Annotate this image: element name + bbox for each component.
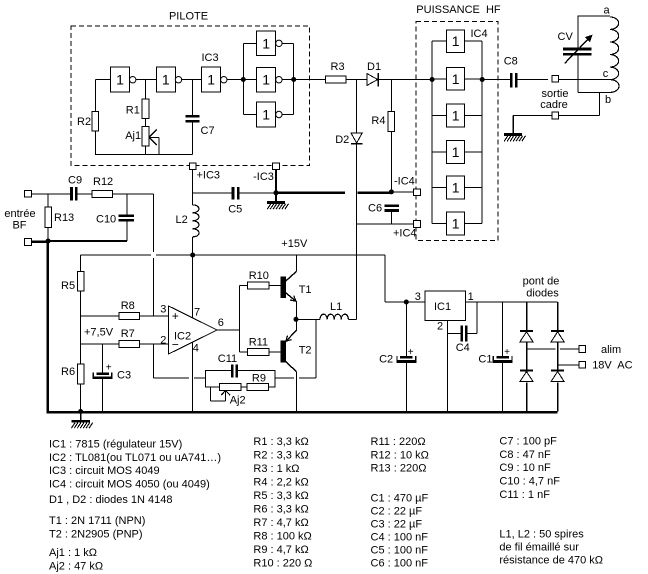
wire +IC3 down to L2: [192, 170, 194, 205]
svg-text:R7 : 4,7 kΩ: R7 : 4,7 kΩ: [253, 517, 308, 529]
svg-text:CV: CV: [558, 31, 574, 43]
node IC4 input: [430, 77, 435, 82]
capacitor C7: [185, 115, 199, 118]
wire C11 branch: [206, 369, 231, 371]
svg-text:C11: C11: [218, 353, 237, 365]
wire lower sortie to ground: [513, 115, 551, 117]
svg-text:C3 : 22 µF: C3 : 22 µF: [371, 519, 423, 531]
connector sortie lower: [552, 112, 559, 119]
wire L2 bottom to +15V bus: [192, 237, 194, 255]
variable capacitor CV: [563, 48, 592, 51]
inverter IC3a: [111, 67, 130, 92]
svg-text:R4 : 2,2 kΩ: R4 : 2,2 kΩ: [253, 477, 308, 489]
resistor R5: [77, 271, 84, 291]
svg-text:7: 7: [194, 306, 200, 318]
regulator IC1: [425, 291, 466, 321]
svg-text:R12 : 10 kΩ: R12 : 10 kΩ: [371, 449, 429, 461]
svg-text:2: 2: [437, 321, 443, 333]
node R4 ground: [389, 189, 394, 194]
connector sortie upper: [552, 75, 559, 82]
wire to R10: [239, 285, 247, 287]
resistor R2: [92, 111, 99, 131]
connector alim lower: [579, 361, 586, 368]
svg-text:+IC3: +IC3: [197, 170, 221, 182]
wire ground to -IC4: [391, 191, 413, 193]
wire input inverter chain: [95, 79, 110, 81]
PILOTE dashed box: [71, 26, 309, 166]
svg-text:R12: R12: [93, 176, 113, 188]
svg-text:R9: R9: [252, 373, 266, 385]
wire C5 to -IC3 ground: [240, 192, 277, 194]
svg-text:IC2 : TL081(ou TL071 ou uA741…: IC2 : TL081(ou TL071 ou uA741…): [49, 452, 221, 464]
wire -IC3 down: [275, 170, 277, 193]
svg-text:C6: C6: [368, 203, 382, 215]
wire D2 branch: [356, 80, 358, 133]
svg-text:IC1: IC1: [434, 301, 451, 313]
svg-text:1: 1: [262, 72, 270, 88]
op-amp IC2: [169, 306, 217, 354]
svg-text:Aj1: Aj1: [125, 130, 141, 142]
svg-text:c: c: [603, 68, 609, 80]
wire Aj2-R9: [241, 386, 247, 388]
svg-text:C11 : 1 nF: C11 : 1 nF: [499, 489, 550, 501]
node IC4 output: [480, 77, 485, 82]
svg-text:C5: C5: [228, 204, 242, 216]
svg-text:T1 : 2N 1711 (NPN): T1 : 2N 1711 (NPN): [49, 515, 145, 527]
svg-text:R1 : 3,3 kΩ: R1 : 3,3 kΩ: [253, 436, 308, 448]
svg-text:C1 : 470 µF: C1 : 470 µF: [371, 493, 429, 505]
wire R7 line: [81, 343, 119, 345]
svg-text:C2 : 22 µF: C2 : 22 µF: [371, 506, 423, 518]
wire AC lower tap: [558, 364, 579, 366]
svg-text:R8: R8: [121, 300, 135, 312]
svg-text:R2: R2: [77, 116, 91, 128]
wire C3 bottom: [102, 379, 104, 411]
node R6 ground: [78, 409, 83, 414]
wire L1 right up to D2 column: [348, 318, 356, 320]
capacitor C9: [70, 187, 73, 201]
svg-text:R10: R10: [249, 270, 269, 282]
ground sortie: [512, 116, 514, 135]
svg-text:alim: alim: [601, 344, 621, 356]
wire ground line to right: [276, 192, 345, 194]
wire IC4 out to C8: [482, 79, 510, 81]
PUISSANCE HF dashed box: [416, 22, 498, 241]
wire bridge left mid: [526, 343, 528, 371]
svg-text:R6: R6: [61, 366, 75, 378]
svg-text:1: 1: [452, 216, 460, 232]
wire bridge right column top: [557, 302, 559, 331]
svg-text:C6 : 100 nF: C6 : 100 nF: [371, 558, 429, 570]
frame coil c-b: [610, 80, 619, 93]
node L2 on bus: [190, 253, 195, 258]
node -IC3 ground: [274, 190, 279, 195]
wire inv2-inv3: [181, 79, 202, 81]
svg-text:R3 : 1 kΩ: R3 : 1 kΩ: [253, 463, 299, 475]
svg-text:+: +: [408, 347, 414, 358]
svg-text:1: 1: [452, 33, 460, 49]
svg-text:+: +: [106, 363, 112, 374]
svg-text:R10 : 220 Ω: R10 : 220 Ω: [253, 558, 312, 570]
wire +IC4 line: [357, 223, 414, 225]
svg-text:+: +: [172, 309, 179, 323]
wire C4 right up: [467, 333, 476, 335]
svg-text:+15V: +15V: [281, 238, 308, 250]
svg-text:R6 : 3,3 kΩ: R6 : 3,3 kΩ: [253, 504, 308, 516]
node output: [294, 317, 299, 322]
wire CV top rail: [577, 16, 579, 48]
svg-text:L1, L2 : 50 spires: L1, L2 : 50 spires: [499, 529, 584, 541]
svg-text:IC4 : circuit MOS 4050 (ou 404: IC4 : circuit MOS 4050 (ou 4049): [49, 478, 210, 490]
svg-text:C8 : 47 nF: C8 : 47 nF: [499, 449, 551, 461]
svg-text:cadre: cadre: [540, 99, 568, 111]
wire C7 column: [192, 80, 194, 116]
buffer IC4d: [447, 140, 465, 163]
svg-text:b: b: [605, 94, 611, 106]
wire connector to coil tap c: [559, 79, 610, 81]
ground bus symbol: [80, 414, 82, 422]
wire buffer 1 stubs: [432, 40, 447, 42]
svg-text:T2: T2: [299, 345, 312, 357]
wire lower sortie right: [559, 115, 599, 117]
wire R1 top: [145, 80, 147, 99]
wire R13 bottom: [47, 228, 49, 241]
bridge diode upper-left: [520, 330, 533, 332]
svg-text:1: 1: [452, 71, 460, 87]
resistor R11: [247, 348, 269, 355]
svg-text:Aj2 : 47 kΩ: Aj2 : 47 kΩ: [49, 560, 103, 572]
svg-text:C9: C9: [68, 174, 82, 186]
capacitor C6: [384, 205, 399, 208]
connector entree BF lower: [25, 239, 32, 246]
bridge diode upper-right: [551, 330, 564, 332]
svg-text:1: 1: [468, 291, 474, 303]
connector -IC3: [273, 163, 280, 170]
capacitor C5: [232, 187, 235, 200]
svg-text:IC2: IC2: [174, 331, 191, 343]
svg-text:entrée: entrée: [4, 208, 35, 220]
buffer IC4e: [447, 176, 465, 199]
wire IC4 input bus: [431, 41, 433, 223]
ground -IC3: [275, 193, 277, 203]
svg-text:18V AC: 18V AC: [592, 359, 632, 371]
svg-text:+IC4: +IC4: [393, 227, 417, 239]
wire bridge right col bottom: [557, 383, 559, 412]
svg-text:1: 1: [452, 108, 460, 124]
inductor L2: [193, 205, 199, 237]
wire to R3: [294, 79, 326, 81]
feedback block right bar: [274, 370, 276, 388]
wire buffer 5 stubs: [432, 186, 447, 188]
svg-text:T1: T1: [299, 284, 312, 296]
resistor R4: [388, 111, 395, 131]
wire feedback tap: [315, 319, 317, 378]
svg-text:C10: C10: [96, 213, 116, 225]
svg-text:1: 1: [452, 144, 460, 160]
svg-text:R1: R1: [126, 105, 140, 117]
resistor R7: [119, 341, 140, 348]
svg-text:C4: C4: [456, 342, 470, 354]
svg-text:R5 : 3,3 kΩ: R5 : 3,3 kΩ: [253, 490, 308, 502]
wire buffer 3 stubs: [432, 115, 447, 117]
capacitor C10: [119, 214, 135, 217]
wire L2 node to C5: [193, 192, 232, 194]
wire node to L1: [296, 318, 320, 320]
wire D1 output: [378, 79, 432, 81]
svg-text:6: 6: [218, 317, 224, 329]
buffer IC4c: [447, 104, 465, 127]
capacitor C11: [231, 364, 234, 377]
trimmer Aj2: [219, 383, 240, 390]
transistor T2: [280, 341, 286, 363]
svg-text:C8: C8: [504, 56, 518, 68]
svg-text:C2: C2: [379, 353, 393, 365]
svg-text:Aj1 : 1 kΩ: Aj1 : 1 kΩ: [49, 547, 97, 559]
feedback block left bar: [205, 370, 207, 388]
connector alim upper: [579, 346, 586, 353]
svg-text:C5 : 100 nF: C5 : 100 nF: [371, 545, 429, 557]
svg-text:C10 : 4,7 nF: C10 : 4,7 nF: [499, 475, 560, 487]
svg-text:1: 1: [162, 72, 170, 88]
resistor R3: [326, 76, 346, 83]
wire pin4 to ground bus: [192, 342, 194, 412]
resistor R10: [247, 282, 269, 289]
svg-text:D2: D2: [335, 134, 349, 146]
wire bridge right mid: [557, 343, 559, 371]
svg-text:IC3: IC3: [202, 52, 219, 64]
svg-text:R3: R3: [331, 61, 345, 73]
wire R4 bottom to ground line: [390, 132, 392, 193]
svg-text:1: 1: [262, 35, 270, 51]
inverter IC3e: [257, 67, 276, 92]
resistor R9: [247, 383, 268, 390]
svg-text:IC4: IC4: [471, 28, 488, 40]
wire C1 branch: [502, 302, 504, 356]
wire R8 line: [81, 315, 119, 317]
svg-text:résistance de 470 kΩ: résistance de 470 kΩ: [499, 555, 603, 567]
svg-text:R13 : 220Ω: R13 : 220Ω: [371, 463, 427, 475]
wire inv1-inv2: [136, 79, 156, 81]
svg-text:R13: R13: [54, 212, 74, 224]
capacitor C2: [400, 356, 413, 359]
wire C8 to sortie connector: [517, 79, 548, 81]
inverter IC3b: [156, 67, 175, 92]
inverter IC3d: [257, 31, 276, 56]
svg-text:2: 2: [160, 335, 166, 347]
svg-text:BF: BF: [12, 220, 26, 232]
svg-text:R11: R11: [249, 337, 268, 349]
wire bridge left col bottom: [526, 383, 528, 412]
capacitor C8: [510, 73, 513, 88]
svg-text:R8 : 100 kΩ: R8 : 100 kΩ: [253, 531, 311, 543]
wire R1-Aj1: [145, 119, 147, 127]
node BF ground: [46, 239, 51, 244]
buffer IC4a: [447, 30, 465, 53]
svg-text:D1 , D2 : diodes 1N 4148: D1 , D2 : diodes 1N 4148: [49, 494, 173, 506]
transistor T1: [280, 276, 286, 298]
svg-text:PILOTE: PILOTE: [169, 11, 208, 23]
node C2 junction: [404, 300, 409, 305]
svg-text:L1: L1: [330, 301, 342, 313]
wire parallel input bus: [242, 43, 244, 114]
resistor R13: [45, 207, 52, 228]
svg-text:D1: D1: [367, 61, 381, 73]
buffer IC4b: [447, 67, 465, 90]
wire CV bottom rail: [577, 56, 579, 93]
capacitor C4: [461, 326, 464, 342]
wire coil b down: [598, 92, 600, 115]
svg-text:3: 3: [160, 304, 166, 316]
wire pin7 to bus: [192, 255, 194, 318]
svg-text:R11 : 220Ω: R11 : 220Ω: [371, 436, 426, 448]
svg-text:R5: R5: [61, 280, 75, 292]
wire BF ground down: [47, 241, 49, 412]
svg-text:diodes: diodes: [526, 288, 559, 300]
svg-text:PUISSANCE HF: PUISSANCE HF: [416, 4, 501, 16]
svg-text:L2: L2: [176, 214, 188, 226]
svg-text:a: a: [604, 5, 611, 17]
svg-text:T2 : 2N2905 (PNP): T2 : 2N2905 (PNP): [49, 528, 143, 540]
wire pin2 feedback down: [152, 344, 154, 378]
svg-text:C1: C1: [478, 353, 492, 365]
svg-text:IC3 : circuit MOS 4049: IC3 : circuit MOS 4049: [49, 465, 160, 477]
node chain output: [241, 77, 246, 82]
svg-text:R7: R7: [121, 328, 135, 340]
svg-text:R4: R4: [371, 115, 385, 127]
wire bridge left column top: [526, 302, 528, 331]
wire C10 branch: [126, 194, 128, 215]
capacitor C3: [96, 373, 109, 376]
svg-text:Aj2: Aj2: [230, 395, 246, 407]
wire C9 to R12: [78, 193, 93, 195]
wire C2 bottom: [405, 363, 407, 412]
wire C4 left: [448, 333, 461, 335]
svg-text:-IC4: -IC4: [394, 175, 415, 187]
wire AC upper tap: [527, 348, 556, 350]
connector +IC4: [414, 221, 421, 228]
svg-text:C3: C3: [117, 370, 131, 382]
svg-text:1: 1: [116, 72, 124, 88]
svg-text:pont de: pont de: [523, 276, 560, 288]
svg-text:C7 : 100 pF: C7 : 100 pF: [499, 436, 557, 448]
wire BF lower to node: [32, 240, 48, 242]
svg-text:1: 1: [262, 107, 270, 123]
wire node to T2 emitter: [295, 319, 297, 331]
bridge diode lower-left: [520, 370, 533, 372]
resistor R12: [92, 190, 112, 197]
capacitor C1: [497, 356, 510, 359]
svg-text:R2 : 3,3 kΩ: R2 : 3,3 kΩ: [253, 450, 308, 462]
bridge diode lower-right: [551, 370, 564, 372]
svg-text:C7: C7: [201, 125, 215, 137]
wire IC1 pin2 down: [447, 321, 449, 412]
svg-text:C9 : 10 nF: C9 : 10 nF: [499, 462, 551, 474]
svg-text:3: 3: [415, 291, 421, 303]
connector -IC4: [414, 189, 421, 196]
resistor R1: [142, 99, 149, 119]
wire R6 bottom: [80, 384, 82, 412]
inverter IC3f: [257, 102, 276, 127]
buffer IC4f: [447, 212, 465, 235]
connector entree BF upper: [25, 190, 32, 197]
wire R5 top: [80, 255, 82, 271]
resistor R6: [77, 364, 84, 384]
wire Aj1 bottom: [145, 146, 147, 154]
svg-text:de fil émaillé sur: de fil émaillé sur: [499, 542, 579, 554]
wire divider node: [80, 291, 82, 364]
wire R2 bottom: [94, 131, 96, 155]
svg-text:IC1 : 7815 (régulateur 15V): IC1 : 7815 (régulateur 15V): [49, 439, 182, 451]
wire R9 right: [269, 386, 275, 388]
svg-text:1: 1: [207, 72, 215, 88]
wire C10 bottom: [126, 221, 128, 241]
wire BF upper to C9: [32, 193, 71, 195]
node parallel output: [291, 77, 296, 82]
wire IC4 output bus: [481, 41, 483, 223]
wire inv3 output to parallel bank: [227, 79, 243, 81]
wire C6 bottom: [390, 212, 392, 224]
wire parallel output bus: [282, 42, 294, 44]
wire to R11: [239, 351, 247, 353]
connector +IC3: [189, 163, 196, 170]
resistor R8: [119, 313, 140, 320]
wire D2 cathode down to L1 and +IC4: [356, 144, 358, 319]
svg-text:4: 4: [193, 342, 199, 354]
wire output pin6: [217, 329, 239, 331]
wire R4 branch: [390, 80, 392, 112]
svg-text:-IC3: -IC3: [253, 171, 274, 183]
svg-text:+7,5V: +7,5V: [84, 326, 114, 338]
inverter IC3c: [202, 67, 221, 92]
svg-text:1: 1: [452, 179, 460, 195]
wire C1 bottom: [502, 363, 504, 412]
wire R12 right then down to pin3: [112, 193, 153, 195]
trimmer Aj1: [142, 127, 149, 147]
diode D2: [351, 133, 362, 143]
frame coil a-c: [610, 17, 618, 80]
wire C3 branch: [102, 344, 104, 373]
inductor L1: [320, 314, 348, 319]
wire buffer 4 stubs: [432, 151, 447, 153]
wire R10 to T1 base: [269, 285, 280, 287]
wire R13 top: [47, 194, 49, 207]
wire T1 emitter to node: [295, 301, 297, 319]
wire buffer 6 stubs: [432, 223, 447, 225]
svg-text:R9 : 4,7 kΩ: R9 : 4,7 kΩ: [253, 544, 308, 556]
wire C2 branch: [405, 302, 407, 356]
wire Aj2 branch: [206, 386, 220, 388]
wire buffer 2 stubs: [432, 78, 447, 80]
diode D1: [367, 74, 378, 86]
wire R3-D1: [346, 79, 367, 81]
wire +15V bus: [81, 254, 151, 256]
wire IC1 pin1 out: [466, 301, 558, 303]
svg-text:+: +: [504, 347, 510, 358]
svg-text:C4 : 100 nF: C4 : 100 nF: [371, 532, 429, 544]
ground bus: [47, 411, 558, 414]
wire R11 to T2 base: [269, 351, 280, 353]
